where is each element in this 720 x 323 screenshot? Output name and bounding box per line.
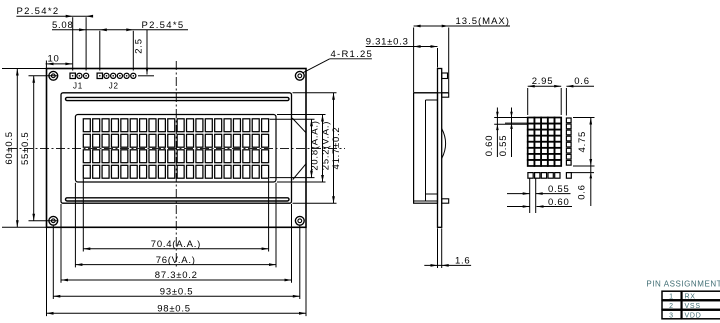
svg-text:RX: RX <box>685 293 696 300</box>
svg-text:J1: J1 <box>73 82 83 91</box>
svg-text:4.75: 4.75 <box>577 131 588 153</box>
svg-text:13.5(MAX): 13.5(MAX) <box>456 16 510 27</box>
svg-text:P2.54*5: P2.54*5 <box>142 20 185 31</box>
svg-text:41.7±0.2: 41.7±0.2 <box>331 127 342 170</box>
svg-text:0.55: 0.55 <box>548 184 570 195</box>
svg-text:76(V.A.): 76(V.A.) <box>156 255 196 266</box>
svg-text:VSS: VSS <box>685 303 701 310</box>
svg-text:0.6: 0.6 <box>576 184 587 199</box>
svg-text:PIN ASSIGNMENT: PIN ASSIGNMENT <box>646 280 720 289</box>
svg-text:0.55: 0.55 <box>498 135 509 157</box>
svg-text:98±0.5: 98±0.5 <box>157 304 191 315</box>
svg-text:3: 3 <box>669 312 674 319</box>
svg-text:0.60: 0.60 <box>484 135 495 157</box>
svg-text:87.3±0.2: 87.3±0.2 <box>155 270 198 281</box>
svg-text:70.4(A.A.): 70.4(A.A.) <box>151 239 201 250</box>
svg-text:5.08: 5.08 <box>52 20 74 31</box>
svg-text:P2.54*2: P2.54*2 <box>17 6 60 17</box>
svg-text:0.60: 0.60 <box>548 197 570 208</box>
svg-text:25.2(V.A.): 25.2(V.A.) <box>320 121 331 170</box>
svg-text:1: 1 <box>669 293 674 300</box>
svg-text:55±0.5: 55±0.5 <box>20 132 31 166</box>
svg-text:9.31±0.3: 9.31±0.3 <box>366 37 409 48</box>
svg-text:J2: J2 <box>109 82 119 91</box>
svg-text:VDD: VDD <box>685 312 702 319</box>
svg-text:10: 10 <box>47 54 59 65</box>
svg-text:4-R1.25: 4-R1.25 <box>331 49 374 60</box>
svg-text:1.6: 1.6 <box>455 255 470 266</box>
svg-text:0.6: 0.6 <box>574 76 589 87</box>
svg-text:93±0.5: 93±0.5 <box>160 286 194 297</box>
svg-text:2.95: 2.95 <box>532 76 554 87</box>
svg-text:2.5: 2.5 <box>134 38 145 53</box>
svg-text:2: 2 <box>669 303 674 310</box>
svg-text:20.8(A.A.): 20.8(A.A.) <box>309 120 320 170</box>
svg-text:60±0.5: 60±0.5 <box>4 131 15 165</box>
